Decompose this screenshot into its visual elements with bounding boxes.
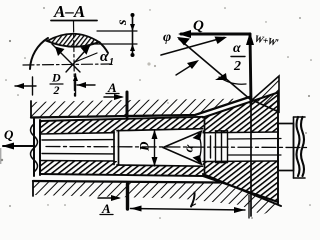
label W+W' <box>253 34 279 50</box>
cone left face <box>204 118 206 176</box>
section plane line A top <box>126 92 129 117</box>
svg-text:2: 2 <box>53 83 60 97</box>
label A-A <box>53 2 85 21</box>
housing bottom seat diagonal <box>203 174 281 206</box>
cavity bottom line <box>117 165 203 166</box>
mandrel stem top line <box>42 139 114 141</box>
svg-text:Q: Q <box>193 18 204 34</box>
svg-text:A–A: A–A <box>53 2 85 21</box>
svg-text:W+W′: W+W′ <box>253 34 279 50</box>
wedge line right <box>66 42 93 72</box>
l dimension line <box>131 209 246 211</box>
shaft end with break <box>294 117 306 178</box>
svg-text:1: 1 <box>109 57 114 68</box>
s dimension extension line bottom <box>93 43 137 45</box>
circle arc of sleeve outline <box>30 38 48 69</box>
sleeve outer top line <box>40 117 203 121</box>
cone bore bottom line <box>203 160 278 163</box>
s dim arrow bottom <box>130 44 135 51</box>
diagonal W vector (arrow up-right toward Q corner) <box>161 38 224 56</box>
sleeve bottom wall hatch right <box>117 165 203 176</box>
center line of main view <box>46 147 308 148</box>
s dimension extension line top <box>97 30 137 32</box>
label alpha1 <box>100 49 114 68</box>
D/2 dimension: left arrow <box>15 85 36 87</box>
wedge line left <box>52 44 80 72</box>
svg-text:Q: Q <box>4 127 14 142</box>
horizontal centerline of A-A view <box>23 64 110 65</box>
sleeve bore bottom line left <box>40 160 114 163</box>
svg-text:D: D <box>137 141 152 152</box>
housing top bar bore edge <box>31 97 251 118</box>
internal cone V bottom <box>163 148 202 165</box>
vector to phi (diagonal, arrow up-left) <box>179 39 251 100</box>
section arrow A top <box>104 96 122 98</box>
housing right face <box>250 88 252 216</box>
sleeve left face <box>39 120 41 175</box>
label A top <box>107 80 117 95</box>
svg-text:A: A <box>101 201 111 216</box>
label D/2 fraction <box>51 71 61 98</box>
s dimension line <box>132 14 134 56</box>
leader for alpha1 <box>75 53 97 62</box>
housing top bar hatch <box>31 97 251 118</box>
hatched lens (slot section) <box>47 34 99 47</box>
l right extension line <box>248 195 250 218</box>
cone base right face <box>277 92 279 204</box>
mandrel stem bottom line <box>42 153 114 155</box>
D dimension line <box>154 130 156 166</box>
vector W+W' (vertical, arrow up) <box>250 34 251 104</box>
alpha/2 label <box>233 41 241 74</box>
label D rotated <box>137 141 152 152</box>
washer after cone <box>278 124 294 171</box>
section plane line A bottom <box>126 184 129 209</box>
svg-text:α: α <box>100 49 109 65</box>
housing left edge bottom <box>32 181 34 196</box>
force Q arrow <box>3 145 34 147</box>
sleeve outer bottom line <box>40 174 203 176</box>
hatched wedge (cone corner) <box>252 76 279 112</box>
angle alpha/2 arc <box>219 77 246 84</box>
sleeve top wall hatch right <box>117 117 203 131</box>
vertical centerline of A-A view <box>74 21 75 96</box>
small angle arrow on phi line <box>187 60 199 69</box>
cavity left face <box>113 132 115 165</box>
vector Q (top horizontal, arrow left) <box>181 33 250 36</box>
internal cone V top <box>163 131 202 148</box>
screw stem lines inside cone bore <box>228 138 282 141</box>
svg-text:s: s <box>115 19 130 26</box>
label alpha rotated <box>180 142 196 153</box>
housing left edge top <box>30 101 32 118</box>
underline of A-A <box>51 20 97 22</box>
cone lower wall hatch <box>203 161 278 202</box>
label s (rotated) <box>115 19 130 26</box>
label Q <box>193 18 204 34</box>
label Q (left) <box>4 127 14 142</box>
label A bottom <box>101 201 111 216</box>
angle alpha1 arrow right <box>81 46 91 55</box>
sleeve bottom wall hatch left <box>40 161 117 175</box>
housing bottom bar hatch <box>33 181 281 215</box>
housing bottom bar bore edge <box>33 181 220 183</box>
cone lower flank <box>203 176 278 202</box>
collar on stem inside bore <box>210 136 212 158</box>
cone upper flank <box>203 93 278 118</box>
s dim arrow top <box>130 24 135 31</box>
D/2 right extension (center line continues) <box>75 74 77 96</box>
D/2 dimension: right arrow <box>77 84 95 86</box>
label l <box>191 193 195 207</box>
cone upper wall hatch <box>203 93 278 133</box>
sleeve bore top line left <box>40 133 114 134</box>
svg-text:α: α <box>180 142 196 153</box>
sleeve top wall hatch left <box>40 120 117 134</box>
section arrow A bottom <box>98 197 119 199</box>
svg-text:A: A <box>107 80 117 95</box>
cavity top line <box>117 129 203 131</box>
cone bore top line <box>203 131 278 134</box>
svg-text:α: α <box>233 41 241 56</box>
svg-text:2: 2 <box>233 59 241 74</box>
angle alpha1 arrow left <box>55 47 65 57</box>
mandrel left break end <box>33 119 35 176</box>
D/2 left extension line <box>32 77 34 95</box>
svg-text:φ: φ <box>163 30 171 45</box>
s dim end blobs <box>131 13 135 17</box>
cone V mouth arc <box>198 133 201 163</box>
label phi <box>163 30 171 45</box>
